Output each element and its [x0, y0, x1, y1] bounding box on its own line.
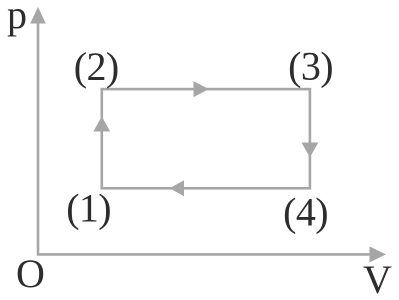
arrow right on process 2-3 (top side) [194, 81, 210, 97]
svg-text:(1): (1) [66, 186, 111, 231]
p axis (vertical) [30, 7, 46, 256]
V axis (horizontal) [37, 246, 386, 262]
arrow left on process 4-1 (bottom side) [170, 180, 185, 196]
svg-text:V: V [363, 257, 392, 300]
svg-text:(4): (4) [283, 190, 328, 235]
arrow up on process 1-2 (left side) [93, 117, 110, 132]
svg-text:p: p [7, 0, 27, 37]
cycle rectangle [102, 89, 310, 188]
svg-text:(2): (2) [74, 44, 119, 89]
svg-text:O: O [16, 251, 45, 296]
svg-text:(3): (3) [288, 44, 333, 89]
arrow down on process 3-4 (right side) [302, 143, 319, 158]
